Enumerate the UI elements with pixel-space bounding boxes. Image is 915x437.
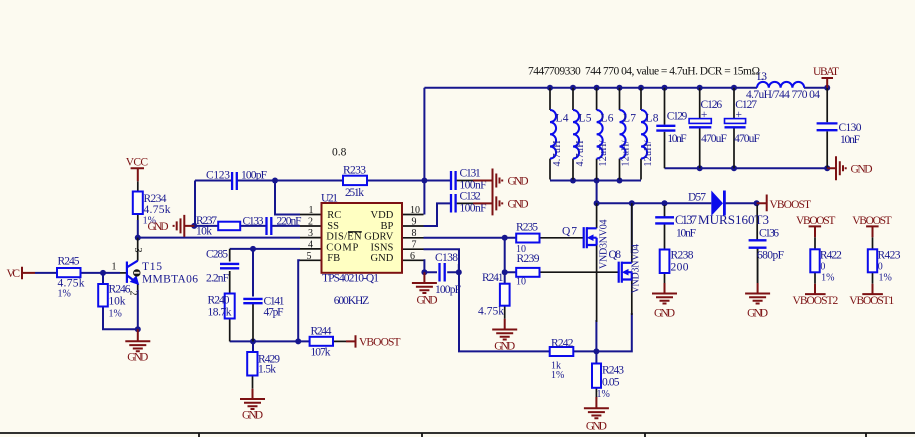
svg-text:9: 9 <box>412 217 417 228</box>
svg-text:4.75k: 4.75k <box>144 204 171 216</box>
svg-text:R422: R422 <box>820 250 842 262</box>
svg-text:10: 10 <box>410 205 420 216</box>
wire top rail <box>424 87 827 89</box>
svg-text:GND: GND <box>508 176 529 188</box>
svg-text:DIS/EN: DIS/EN <box>326 232 362 243</box>
C141 bottom lead <box>252 303 254 341</box>
svg-text:BP: BP <box>380 221 393 232</box>
capacitor C129 <box>656 111 687 145</box>
C137 vertical pins <box>664 205 666 250</box>
Q8 drain pin <box>631 203 633 263</box>
svg-text:GND: GND <box>586 421 607 433</box>
capacitor C136 <box>749 228 784 262</box>
junction R234/T15 collector/DIS-EN node <box>135 235 141 241</box>
T15 base pin <box>120 272 127 274</box>
power port VCC <box>126 157 149 182</box>
svg-text:470uF: 470uF <box>701 133 727 145</box>
svg-text:GND: GND <box>747 308 768 320</box>
ground below C136 <box>745 283 770 320</box>
capacitor C132 <box>451 190 487 214</box>
wire pin3 DIS/EN <box>138 237 300 239</box>
svg-text:L7: L7 <box>623 113 636 125</box>
R240 bottom lead <box>229 319 231 342</box>
U21 pin names <box>326 210 393 264</box>
resistor R422 <box>810 249 842 283</box>
svg-text:GND: GND <box>127 352 148 364</box>
T15 emitter pin <box>137 284 139 291</box>
wire R243 top <box>595 351 597 363</box>
wire R234 bottom <box>137 220 139 238</box>
port VBOOST at R244 <box>346 335 401 348</box>
svg-text:8: 8 <box>412 228 417 239</box>
power port UBAT <box>813 66 839 88</box>
inductor L4-L8 pins <box>550 88 641 180</box>
svg-text:10k: 10k <box>109 296 126 308</box>
ground right of C132 <box>473 191 529 215</box>
wire C141 top <box>252 249 254 297</box>
svg-text:R243: R243 <box>602 365 624 377</box>
resistor R242 <box>550 338 574 382</box>
resistor R234 <box>133 192 171 227</box>
wire GDRV to R239 <box>505 238 517 272</box>
junction rail L7 top <box>617 85 623 91</box>
ground left of R237 <box>148 215 195 237</box>
junction R242/R243/Q7 source node <box>593 348 599 354</box>
junction VDD/R233/C131 node <box>421 178 427 184</box>
ground below R241 <box>492 319 517 353</box>
svg-text:GDRV: GDRV <box>364 232 393 243</box>
junction switch rail L7 bottom <box>617 178 623 184</box>
C285 leads <box>229 249 231 294</box>
inductor L3 <box>746 71 820 101</box>
sheet border bottom <box>0 433 915 437</box>
svg-text:200: 200 <box>671 262 689 274</box>
ground right of C131 <box>473 169 529 193</box>
svg-text:4.75k: 4.75k <box>478 306 504 318</box>
R239 to Q8 gate lead <box>540 271 619 273</box>
svg-text:107k: 107k <box>311 347 331 359</box>
wire Q7 source lower <box>595 320 597 351</box>
wire GDRV net <box>424 237 517 239</box>
T15 collector pin <box>137 238 139 261</box>
svg-text:R238: R238 <box>671 250 694 262</box>
svg-text:C136: C136 <box>759 228 779 240</box>
transistor T15 MMBTA06 <box>127 261 138 285</box>
C131 C132 right plate leads <box>457 181 473 204</box>
svg-text:C133: C133 <box>243 216 264 228</box>
wire Q8 drain <box>631 203 633 253</box>
svg-text:12uH/: 12uH/ <box>621 140 632 166</box>
svg-text:6: 6 <box>410 251 415 262</box>
capacitor C127 polarized <box>725 99 760 145</box>
T15 noerc marker <box>133 269 140 276</box>
junction R240/C141/R429 node <box>250 338 256 344</box>
svg-text:1%: 1% <box>109 309 122 320</box>
svg-text:C138: C138 <box>435 252 458 264</box>
resistor R243 <box>592 364 624 401</box>
inductor L8 <box>641 110 659 167</box>
svg-text:C129: C129 <box>667 111 688 123</box>
junction FB/R244 node <box>295 338 301 344</box>
svg-text:C131: C131 <box>460 167 482 179</box>
svg-text:GND: GND <box>508 199 529 211</box>
transistor Q7 VND3NV04 <box>562 220 610 270</box>
inductor L5 <box>573 110 592 167</box>
svg-text:R233: R233 <box>343 165 366 177</box>
svg-text:2.2nF: 2.2nF <box>206 273 229 285</box>
resistor R235 <box>516 222 540 256</box>
wire FB drop <box>298 260 300 341</box>
junction rail C129 top <box>662 85 668 91</box>
svg-text:5: 5 <box>307 251 312 262</box>
junction C138/ISNS node <box>456 269 462 275</box>
svg-text:VCC: VCC <box>126 157 149 169</box>
svg-text:18.7k: 18.7k <box>208 307 232 319</box>
svg-text:VND3NV04: VND3NV04 <box>631 244 642 294</box>
junction GDRV/R235 node <box>502 235 508 241</box>
svg-text:FB: FB <box>327 253 340 264</box>
svg-text:GND: GND <box>851 164 873 176</box>
svg-text:RC: RC <box>327 210 341 221</box>
svg-text:1%: 1% <box>58 289 71 300</box>
svg-text:2: 2 <box>128 291 139 296</box>
svg-text:1%: 1% <box>879 273 892 284</box>
junction boost node C137 top <box>662 200 668 206</box>
svg-text:R242: R242 <box>551 338 574 350</box>
svg-text:4.7uH: 4.7uH <box>552 141 563 167</box>
svg-text:VBOOST1: VBOOST1 <box>849 295 894 307</box>
svg-text:1: 1 <box>112 262 117 273</box>
svg-text:R245: R245 <box>58 256 80 268</box>
wires and nets <box>35 88 827 364</box>
svg-text:R241: R241 <box>482 272 504 284</box>
wire RC net top <box>195 181 451 227</box>
svg-text:10: 10 <box>516 277 526 288</box>
svg-text:10nF: 10nF <box>840 134 860 146</box>
svg-text:Q8: Q8 <box>609 249 622 261</box>
junction COMP/C285/C141 node <box>250 246 256 252</box>
junction GND pin/C138 node <box>421 269 427 275</box>
svg-text:0: 0 <box>878 262 883 273</box>
junction rail C127 top <box>731 85 737 91</box>
diode D57 MURS160T3 <box>688 191 769 228</box>
wire switch node <box>597 181 757 204</box>
svg-text:ISNS: ISNS <box>371 242 394 253</box>
resistor R241 <box>478 272 510 318</box>
junction switch rail L5 bottom <box>570 178 576 184</box>
svg-text:C123: C123 <box>206 170 230 182</box>
R422 leads <box>814 237 816 283</box>
C136 bottom lead <box>757 248 759 283</box>
capacitor C285 <box>206 249 239 285</box>
svg-text:L4: L4 <box>556 113 569 125</box>
junction gnd rail C127 bottom <box>731 165 737 171</box>
svg-text:3: 3 <box>132 248 143 253</box>
IC U21 TPS40210-Q1 <box>307 193 421 308</box>
resistor R237 <box>196 215 240 238</box>
svg-text:C132: C132 <box>460 190 482 202</box>
svg-text:100pF: 100pF <box>241 170 267 182</box>
ground below R429 <box>240 389 265 422</box>
svg-text:680pF: 680pF <box>757 250 784 262</box>
svg-text:1%: 1% <box>821 273 834 284</box>
wire FB bottom line <box>230 340 310 342</box>
svg-text:MMBTA06: MMBTA06 <box>142 274 198 286</box>
inductor L7 <box>620 110 637 167</box>
svg-text:GND: GND <box>242 410 263 422</box>
U21 DIS/EN overbar <box>348 231 362 233</box>
svg-text:C285: C285 <box>206 249 228 261</box>
svg-text:100nF: 100nF <box>460 203 487 215</box>
svg-text:10nF: 10nF <box>667 133 686 145</box>
wire R246 branch <box>103 273 138 329</box>
svg-text:R423: R423 <box>878 250 901 262</box>
wire BP to C132 <box>424 203 452 226</box>
power port VBOOST1 below R423 <box>849 284 894 307</box>
svg-text:GND: GND <box>417 295 438 307</box>
svg-text:COMP: COMP <box>326 242 358 253</box>
R235 to Q7 gate lead <box>540 237 584 239</box>
capacitor C130 <box>817 122 862 146</box>
capacitor C137 <box>655 213 697 240</box>
svg-text:U21: U21 <box>321 193 338 205</box>
junction rail UBAT/C130 node <box>824 85 830 91</box>
wire base net <box>35 272 120 274</box>
R243 bottom lead <box>595 388 597 397</box>
svg-text:7: 7 <box>412 240 417 251</box>
svg-text:12uH/: 12uH/ <box>598 140 609 166</box>
svg-text:47pF: 47pF <box>264 307 284 319</box>
svg-text:10nF: 10nF <box>676 228 696 240</box>
transistor Q8 VND3NV04 <box>609 244 642 294</box>
svg-text:470uF: 470uF <box>734 133 760 145</box>
Q7 drain pin <box>596 203 598 228</box>
capacitor C133 <box>243 216 302 236</box>
wire VDD riser <box>423 88 425 215</box>
wire ISNS net <box>424 249 632 351</box>
R244 right lead <box>333 340 346 342</box>
ground below R238 <box>652 283 677 320</box>
svg-text:10k: 10k <box>196 226 212 238</box>
wire R241 top <box>504 272 506 284</box>
junction D57 cathode/C136/VBOOST node <box>754 200 760 206</box>
R241 bottom lead <box>504 306 506 319</box>
IC right pin stubs <box>402 215 424 261</box>
svg-text:0.8: 0.8 <box>332 147 347 159</box>
junction boost node Q7 drain <box>594 200 600 206</box>
port VC <box>7 267 36 280</box>
svg-text:3: 3 <box>308 228 313 239</box>
capacitor C141 <box>243 296 284 319</box>
junction T15 emitter/R246/GND node <box>135 326 141 332</box>
power port VBOOST2 below R422 <box>793 284 839 307</box>
C136 vertical pins <box>756 205 758 283</box>
svg-text:R239: R239 <box>517 253 540 265</box>
svg-text:0: 0 <box>820 262 825 273</box>
resistor R239 <box>516 253 540 288</box>
svg-text:T15: T15 <box>142 261 162 273</box>
svg-text:251k: 251k <box>345 187 364 199</box>
resistor R240 <box>208 294 235 319</box>
resistor R246 <box>98 284 131 320</box>
svg-text:L8: L8 <box>646 113 659 125</box>
resistor R233 <box>343 165 367 200</box>
svg-text:VBOOST: VBOOST <box>770 199 812 211</box>
junction R239/R241 node <box>502 269 508 275</box>
svg-text:100pF: 100pF <box>435 284 461 296</box>
svg-text:R240: R240 <box>208 295 230 307</box>
power port VBOOST above R423 <box>852 215 891 237</box>
wire pin1 RC drop <box>275 181 300 215</box>
svg-text:1%: 1% <box>551 370 564 381</box>
wire C129 C126 C127 branches <box>665 167 828 169</box>
svg-text:R235: R235 <box>516 222 538 234</box>
svg-text:GND: GND <box>494 341 515 353</box>
svg-text:VND3NV04: VND3NV04 <box>599 220 610 270</box>
U21 pin numbers <box>307 205 421 262</box>
svg-text:4.7uH/744 770 04: 4.7uH/744 770 04 <box>746 89 820 101</box>
capacitor C138 <box>435 252 461 296</box>
R238 leads <box>664 249 666 283</box>
svg-text:+: + <box>736 109 743 121</box>
capacitor C131 <box>451 167 487 191</box>
svg-text:GND: GND <box>148 221 169 233</box>
svg-text:VBOOST2: VBOOST2 <box>793 295 839 307</box>
svg-text:2: 2 <box>308 217 313 228</box>
Q7 source pin <box>596 245 598 322</box>
svg-text:4.7uH: 4.7uH <box>575 141 586 167</box>
svg-text:0.05: 0.05 <box>602 377 620 389</box>
svg-text:+: + <box>701 109 708 121</box>
R429 bottom lead <box>252 376 254 389</box>
junction rail C126 top <box>697 85 703 91</box>
junction RC/C123/R233 node <box>272 178 278 184</box>
svg-text:12uH/: 12uH/ <box>643 140 654 166</box>
svg-text:VDD: VDD <box>371 210 394 221</box>
svg-text:220nF: 220nF <box>277 216 302 228</box>
svg-text:GND: GND <box>371 253 394 264</box>
inductor L4 <box>550 110 569 167</box>
wire R237 C133 <box>194 225 300 227</box>
ground below R243 <box>584 397 609 433</box>
C129 C126 C127 C130 vertical pins <box>665 88 828 169</box>
inductor L6 <box>597 110 614 167</box>
port VBOOST at D57 <box>757 195 811 212</box>
resistor R423 <box>868 249 901 283</box>
svg-text:C130: C130 <box>839 122 862 134</box>
svg-text:L6: L6 <box>601 113 614 125</box>
junction rail L6 top <box>594 85 600 91</box>
power port VBOOST above R422 <box>796 215 835 237</box>
junction rail L4 top <box>547 85 553 91</box>
R423 leads <box>872 237 874 283</box>
wire R429 top <box>252 341 254 352</box>
svg-text:D57: D57 <box>688 192 706 204</box>
wire pin4 COMP <box>230 248 300 250</box>
VCC lead to R234 <box>137 181 139 220</box>
junction switch rail L6 bottom <box>594 178 600 184</box>
svg-text:1.5k: 1.5k <box>258 364 276 376</box>
junction R245/R246/T15 base node <box>100 270 106 276</box>
ground right of cap rail <box>827 156 872 180</box>
junction boost node Q8 drain <box>629 200 635 206</box>
resistor R244 <box>310 326 333 359</box>
junction gnd rail C130 bottom <box>824 165 830 171</box>
junction gnd rail C126 bottom <box>697 165 703 171</box>
svg-text:TPS40210-Q1: TPS40210-Q1 <box>322 273 379 285</box>
svg-text:600KHZ: 600KHZ <box>334 295 370 307</box>
junction GND/R237/C123 node <box>191 223 197 229</box>
wire inductor bottom rail <box>550 180 641 182</box>
IC left pin stubs <box>300 215 322 261</box>
junction rail L8 top <box>638 85 644 91</box>
svg-text:UBAT: UBAT <box>813 66 839 78</box>
capacitor C126 polarized <box>689 99 727 145</box>
svg-text:4: 4 <box>308 240 313 251</box>
svg-text:L5: L5 <box>579 113 592 125</box>
svg-text:VBOOST: VBOOST <box>359 337 401 349</box>
resistor R245 <box>57 256 85 300</box>
svg-text:1: 1 <box>309 205 314 216</box>
resistor R238 <box>660 250 694 274</box>
svg-text:Q7: Q7 <box>562 226 577 238</box>
svg-text:SS: SS <box>327 221 339 232</box>
svg-text:GND: GND <box>654 308 675 320</box>
ground below pin6 <box>412 272 438 306</box>
black component pins / leads <box>120 88 873 397</box>
svg-text:R246: R246 <box>109 284 131 296</box>
svg-text:VC: VC <box>7 268 21 280</box>
svg-text:R244: R244 <box>311 326 332 338</box>
wire pin6 to C138 <box>424 260 459 272</box>
svg-text:C137: C137 <box>675 213 697 227</box>
T15 labels <box>112 248 199 296</box>
capacitor C123 <box>206 170 267 191</box>
junction rail L5 top <box>570 85 576 91</box>
resistor R429 <box>247 352 280 376</box>
svg-text:MURS160T3: MURS160T3 <box>698 213 769 227</box>
svg-text:1%: 1% <box>597 389 610 400</box>
svg-text:7447709330 744 770 04, value: 7447709330 744 770 04, value = 4.7uH. DC… <box>528 66 760 78</box>
Q8 source pin <box>631 280 633 316</box>
ground below T15 <box>125 329 150 363</box>
